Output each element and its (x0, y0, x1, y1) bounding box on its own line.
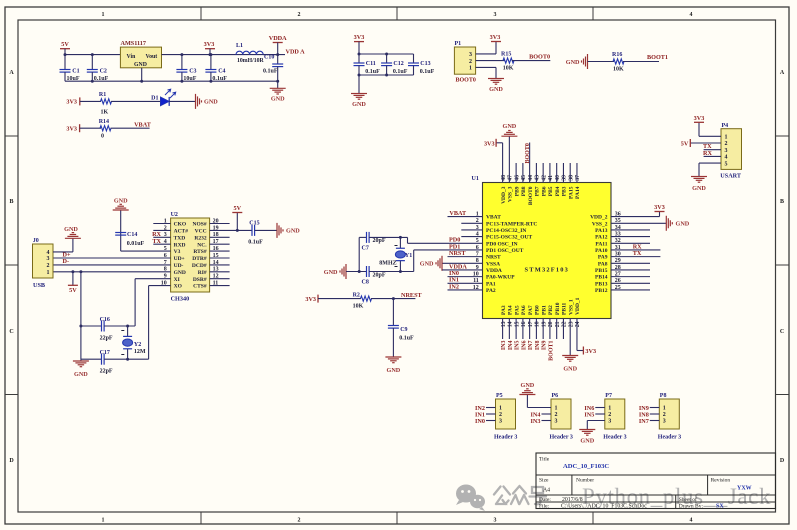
svg-text:GND: GND (324, 269, 338, 276)
svg-text:C3: C3 (189, 68, 196, 74)
svg-text:PD1 OSC_OUT: PD1 OSC_OUT (486, 248, 524, 254)
svg-text:23: 23 (568, 321, 574, 327)
svg-text:PB5: PB5 (548, 186, 554, 196)
svg-text:NREST: NREST (401, 292, 423, 299)
svg-text:3V3: 3V3 (305, 296, 316, 303)
svg-text:Vout: Vout (146, 54, 158, 60)
svg-text:CH340: CH340 (171, 296, 190, 303)
svg-text:C2: C2 (100, 68, 107, 74)
svg-text:2: 2 (663, 412, 666, 418)
svg-text:TX: TX (633, 250, 642, 257)
svg-text:PA7: PA7 (528, 305, 534, 315)
svg-text:3V3: 3V3 (654, 204, 665, 211)
svg-text:B: B (9, 199, 13, 205)
svg-text:D: D (780, 458, 785, 464)
svg-text:PA0-WKUP: PA0-WKUP (486, 275, 515, 281)
svg-text:DCD#: DCD# (192, 263, 207, 269)
svg-text:17: 17 (528, 321, 534, 327)
svg-text:2: 2 (499, 412, 502, 418)
svg-text:L1: L1 (236, 43, 243, 49)
svg-text:C16: C16 (100, 317, 110, 323)
svg-text:2: 2 (298, 518, 301, 524)
svg-text:DTR#: DTR# (192, 256, 207, 262)
svg-text:D-: D- (63, 258, 70, 265)
svg-text:XI: XI (174, 277, 180, 283)
svg-text:IN0: IN0 (475, 418, 485, 425)
svg-text:VSSA: VSSA (486, 261, 500, 267)
svg-text:C: C (9, 329, 13, 335)
svg-text:3V3: 3V3 (484, 140, 495, 147)
svg-text:10K: 10K (503, 66, 514, 72)
svg-text:3V3: 3V3 (66, 125, 77, 132)
svg-text:Header 3: Header 3 (494, 435, 517, 441)
svg-text:2: 2 (608, 412, 611, 418)
svg-text:NOS#: NOS# (193, 222, 207, 228)
svg-text:0.1uF: 0.1uF (263, 69, 278, 75)
svg-text:NRST: NRST (486, 255, 501, 261)
svg-text:2: 2 (555, 412, 558, 418)
svg-text:BOOT1: BOOT1 (548, 341, 554, 361)
svg-text:Sheet of: Sheet of (679, 496, 697, 503)
svg-text:PA14: PA14 (575, 186, 581, 199)
svg-text:45: 45 (521, 175, 527, 181)
svg-text:2: 2 (47, 263, 50, 269)
svg-text:BOOT1: BOOT1 (647, 54, 668, 61)
svg-text:IN3: IN3 (501, 341, 507, 351)
svg-text:PB4: PB4 (555, 186, 561, 196)
svg-text:C10: C10 (264, 55, 274, 61)
svg-text:4: 4 (47, 250, 50, 256)
svg-text:0.1uF: 0.1uF (399, 336, 414, 342)
svg-text:20: 20 (548, 321, 554, 327)
svg-text:PA8: PA8 (598, 261, 608, 267)
svg-text:PB9: PB9 (514, 186, 520, 196)
svg-text:C4: C4 (218, 68, 225, 74)
svg-text:U1: U1 (472, 176, 479, 182)
svg-text:PD0 OSC_IN: PD0 OSC_IN (486, 241, 518, 247)
svg-text:4: 4 (690, 12, 693, 18)
svg-text:4: 4 (690, 518, 693, 524)
svg-text:BOOT0: BOOT0 (525, 143, 531, 163)
svg-text:PB14: PB14 (595, 275, 608, 281)
svg-text:PC13-TAMPER-RTC: PC13-TAMPER-RTC (486, 221, 537, 227)
svg-text:GND: GND (580, 438, 594, 445)
svg-text:RX: RX (703, 150, 712, 157)
svg-text:40: 40 (555, 175, 561, 181)
svg-text:GND: GND (420, 261, 434, 268)
svg-text:PB10: PB10 (555, 302, 561, 315)
svg-text:GND: GND (352, 101, 366, 108)
svg-text:0.01uF: 0.01uF (127, 241, 145, 247)
svg-text:PB11: PB11 (562, 303, 568, 315)
svg-text:IN9: IN9 (542, 341, 548, 351)
svg-text:VDDA: VDDA (486, 268, 502, 274)
svg-text:3V3: 3V3 (490, 34, 501, 41)
svg-text:BOOT0: BOOT0 (528, 186, 534, 205)
svg-text:3: 3 (608, 419, 611, 425)
svg-text:C7: C7 (362, 246, 369, 252)
svg-text:D: D (9, 458, 14, 464)
svg-text:PA11: PA11 (595, 241, 607, 247)
svg-text:2: 2 (298, 12, 301, 18)
svg-text:3: 3 (47, 256, 50, 262)
svg-text:PA2: PA2 (486, 288, 496, 294)
svg-text:PA15: PA15 (568, 186, 574, 199)
svg-text:VDD_1: VDD_1 (575, 297, 581, 315)
svg-text:PB15: PB15 (595, 268, 608, 274)
svg-text:PA13: PA13 (595, 228, 608, 234)
svg-text:4: 4 (725, 155, 728, 161)
svg-text:3V3: 3V3 (204, 41, 215, 48)
svg-text:GND: GND (387, 367, 401, 374)
svg-text:CTS#: CTS# (193, 284, 207, 290)
svg-text:USART: USART (720, 173, 742, 180)
svg-text:GND: GND (271, 96, 285, 103)
svg-text:P6: P6 (552, 393, 559, 399)
svg-text:PA12: PA12 (595, 235, 608, 241)
svg-text:IN6: IN6 (521, 341, 527, 351)
svg-text:VDD_3: VDD_3 (501, 186, 507, 204)
svg-text:20pF: 20pF (373, 272, 386, 278)
svg-text:Size: Size (539, 478, 549, 484)
svg-text:3: 3 (469, 52, 472, 58)
svg-text:3: 3 (663, 419, 666, 425)
svg-text:PB0: PB0 (535, 305, 541, 315)
svg-text:PA5: PA5 (514, 305, 520, 315)
svg-text:C14: C14 (127, 232, 137, 238)
svg-text:V3: V3 (174, 249, 181, 255)
svg-text:C: C (780, 329, 784, 335)
svg-text:P1: P1 (455, 41, 462, 47)
svg-text:44: 44 (528, 175, 534, 181)
svg-text:24: 24 (575, 321, 581, 327)
svg-text:10K: 10K (613, 67, 624, 73)
svg-text:DSR#: DSR# (193, 277, 207, 283)
svg-text:1K: 1K (101, 109, 109, 115)
svg-text:VDD A: VDD A (286, 48, 306, 55)
svg-text:2: 2 (469, 59, 472, 65)
svg-text:C17: C17 (100, 350, 110, 356)
svg-text:D1: D1 (151, 95, 158, 101)
svg-text:RI#: RI# (198, 270, 207, 276)
svg-text:0.1uF: 0.1uF (420, 69, 435, 75)
svg-text:C12: C12 (393, 61, 403, 67)
svg-text:PB6: PB6 (541, 186, 547, 196)
svg-text:PA4: PA4 (508, 305, 514, 315)
svg-text:19: 19 (541, 321, 547, 327)
svg-text:IN5: IN5 (584, 411, 594, 418)
svg-text:USB: USB (33, 282, 45, 289)
svg-text:GND: GND (134, 62, 147, 68)
svg-text:5V: 5V (69, 287, 77, 294)
svg-text:IN5: IN5 (515, 341, 521, 351)
svg-text:VBAT: VBAT (486, 215, 501, 221)
svg-text:16: 16 (521, 321, 527, 327)
svg-text:GND: GND (566, 59, 580, 66)
svg-text:3V3: 3V3 (66, 99, 77, 106)
svg-text:IN8: IN8 (535, 341, 541, 351)
svg-text:GND: GND (563, 366, 577, 373)
svg-text:C15: C15 (249, 220, 259, 226)
svg-text:1: 1 (47, 270, 50, 276)
svg-text:C11: C11 (366, 61, 376, 67)
svg-text:0.1uF: 0.1uF (393, 69, 408, 75)
svg-text:ADC_10_F103C: ADC_10_F103C (563, 463, 609, 470)
svg-text:0.1uF: 0.1uF (365, 69, 380, 75)
svg-text:2017/6/8: 2017/6/8 (562, 497, 583, 503)
svg-text:GND: GND (64, 226, 78, 233)
svg-text:1: 1 (725, 135, 728, 141)
svg-text:3: 3 (725, 148, 728, 154)
svg-text:GND: GND (286, 228, 300, 235)
svg-text:Title: Title (539, 457, 550, 463)
svg-text:37: 37 (575, 175, 581, 181)
svg-text:3V3: 3V3 (585, 348, 596, 355)
svg-text:NRST: NRST (449, 250, 466, 257)
svg-text:UD+: UD+ (174, 256, 185, 262)
svg-text:PB1: PB1 (541, 305, 547, 315)
svg-text:R15: R15 (501, 52, 511, 58)
svg-text:R2: R2 (353, 293, 360, 299)
svg-text:A4: A4 (543, 488, 550, 494)
svg-text:3: 3 (499, 419, 502, 425)
svg-text:42: 42 (541, 175, 547, 181)
svg-text:STM32F103: STM32F103 (525, 267, 570, 274)
svg-text:Header 3: Header 3 (658, 435, 681, 441)
svg-text:21: 21 (555, 321, 561, 327)
svg-text:PB13: PB13 (595, 281, 608, 287)
svg-text:BOOT0: BOOT0 (456, 77, 476, 83)
svg-text:GND: GND (114, 197, 128, 204)
svg-text:2: 2 (725, 141, 728, 147)
svg-text:J0: J0 (33, 238, 39, 244)
svg-text:TX: TX (152, 238, 161, 245)
svg-text:PA3: PA3 (501, 305, 507, 315)
svg-text:C8: C8 (362, 280, 369, 286)
svg-text:20pF: 20pF (373, 238, 386, 244)
svg-text:GND: GND (74, 371, 88, 378)
svg-text:46: 46 (514, 175, 520, 181)
svg-text:SX: SX (716, 503, 724, 509)
svg-text:Header 3: Header 3 (603, 435, 626, 441)
svg-text:IN2: IN2 (449, 283, 459, 290)
svg-text:1: 1 (102, 518, 105, 524)
svg-text:13: 13 (501, 321, 507, 327)
svg-text:39: 39 (562, 175, 568, 181)
svg-text:IN4: IN4 (508, 341, 514, 351)
svg-text:Vin: Vin (127, 54, 137, 60)
svg-text:VDDA: VDDA (269, 35, 287, 42)
svg-text:PB12: PB12 (595, 288, 608, 294)
svg-text:C:\Users\..\ADC_10_F103C.SchDo: C:\Users\..\ADC_10_F103C.SchDoc (561, 503, 647, 509)
svg-text:3: 3 (494, 518, 497, 524)
svg-text:1: 1 (555, 406, 558, 412)
svg-text:Date:: Date: (539, 497, 551, 503)
svg-text:GND: GND (489, 86, 503, 93)
svg-text:VBAT: VBAT (134, 121, 152, 128)
svg-text:R16: R16 (612, 52, 622, 58)
svg-text:File:: File: (539, 503, 550, 509)
svg-text:IN7: IN7 (528, 341, 534, 351)
svg-text:14: 14 (508, 321, 514, 327)
svg-text:Number: Number (576, 478, 594, 484)
svg-text:Header 3: Header 3 (550, 435, 573, 441)
svg-text:GND: GND (521, 382, 535, 389)
svg-text:Y2: Y2 (134, 342, 141, 348)
svg-text:0.1uF: 0.1uF (248, 240, 263, 246)
svg-text:47: 47 (508, 175, 514, 181)
svg-text:C13: C13 (420, 61, 430, 67)
svg-text:5V: 5V (61, 41, 69, 48)
svg-text:3: 3 (494, 12, 497, 18)
svg-text:12M: 12M (134, 349, 146, 355)
svg-text:PB8: PB8 (521, 186, 527, 196)
svg-text:10mH/10R: 10mH/10R (237, 58, 265, 64)
svg-text:IN7: IN7 (639, 418, 649, 425)
svg-text:GND: GND (204, 99, 218, 106)
svg-text:8MHZ: 8MHZ (379, 261, 396, 267)
svg-text:U2: U2 (171, 212, 178, 218)
svg-text:P7: P7 (605, 393, 612, 399)
svg-text:P8: P8 (660, 393, 667, 399)
svg-text:TXD: TXD (174, 235, 186, 241)
svg-text:43: 43 (535, 175, 541, 181)
svg-text:R232: R232 (194, 235, 206, 241)
svg-text:YXW: YXW (737, 486, 752, 492)
svg-text:IN3: IN3 (531, 418, 541, 425)
svg-text:PC15-OSC32_OUT: PC15-OSC32_OUT (486, 235, 532, 241)
svg-text:UD-: UD- (174, 263, 184, 269)
svg-text:22: 22 (562, 321, 568, 327)
svg-text:BOOT0: BOOT0 (529, 54, 550, 61)
svg-text:VSS_2: VSS_2 (592, 221, 608, 227)
svg-text:48: 48 (501, 175, 507, 181)
svg-text:RXD: RXD (174, 242, 186, 248)
svg-text:1: 1 (499, 406, 502, 412)
svg-text:VDD_2: VDD_2 (590, 215, 608, 221)
svg-text:ACT#: ACT# (174, 229, 189, 235)
svg-text:3V3: 3V3 (694, 115, 705, 122)
svg-text:GND: GND (676, 221, 690, 228)
svg-text:GND: GND (503, 123, 517, 130)
svg-text:0: 0 (101, 133, 104, 139)
svg-text:Drawn By:: Drawn By: (679, 503, 704, 509)
svg-text:PA6: PA6 (521, 305, 527, 315)
svg-text:1: 1 (663, 406, 666, 412)
svg-text:P5: P5 (496, 393, 503, 399)
svg-text:AMS1117: AMS1117 (121, 40, 146, 47)
svg-text:15: 15 (514, 321, 520, 327)
svg-text:Revision: Revision (711, 478, 731, 484)
svg-text:PB2: PB2 (548, 305, 554, 315)
svg-text:1: 1 (469, 66, 472, 72)
svg-text:NC.: NC. (197, 242, 207, 248)
svg-text:3V3: 3V3 (354, 34, 365, 41)
svg-text:Y1: Y1 (405, 253, 412, 259)
svg-text:A: A (9, 70, 14, 76)
svg-text:5V: 5V (681, 140, 689, 147)
svg-text:A: A (780, 70, 785, 76)
svg-text:5V: 5V (234, 205, 242, 212)
svg-text:VSS_3: VSS_3 (508, 186, 514, 202)
svg-text:10K: 10K (353, 303, 364, 309)
svg-text:GND: GND (174, 270, 186, 276)
svg-text:PC14-OSC32_IN: PC14-OSC32_IN (486, 228, 526, 234)
svg-text:VCC: VCC (195, 229, 207, 235)
svg-text:VSS_1: VSS_1 (568, 299, 574, 315)
svg-text:C9: C9 (400, 327, 407, 333)
svg-text:PB3: PB3 (562, 186, 568, 196)
svg-text:PA9: PA9 (598, 255, 608, 261)
svg-text:RTS#: RTS# (193, 249, 207, 255)
svg-text:GND: GND (692, 185, 706, 192)
svg-text:PA10: PA10 (595, 248, 608, 254)
svg-text:38: 38 (568, 175, 574, 181)
svg-text:CKO: CKO (174, 222, 187, 228)
svg-text:22pF: 22pF (100, 369, 113, 375)
svg-text:PA1: PA1 (486, 281, 496, 287)
svg-text:41: 41 (548, 175, 554, 181)
svg-text:22pF: 22pF (100, 336, 113, 342)
svg-text:P4: P4 (722, 123, 729, 129)
svg-text:PB7: PB7 (535, 186, 541, 196)
svg-text:1: 1 (102, 12, 105, 18)
svg-text:C1: C1 (72, 68, 79, 74)
svg-text:R1: R1 (99, 92, 106, 98)
svg-text:5: 5 (725, 161, 728, 167)
svg-text:1: 1 (608, 406, 611, 412)
svg-text:VBAT: VBAT (449, 210, 467, 217)
svg-text:18: 18 (535, 321, 541, 327)
svg-text:R14: R14 (99, 119, 109, 125)
svg-text:XO: XO (174, 284, 183, 290)
svg-text:B: B (780, 199, 784, 205)
svg-text:3: 3 (555, 419, 558, 425)
